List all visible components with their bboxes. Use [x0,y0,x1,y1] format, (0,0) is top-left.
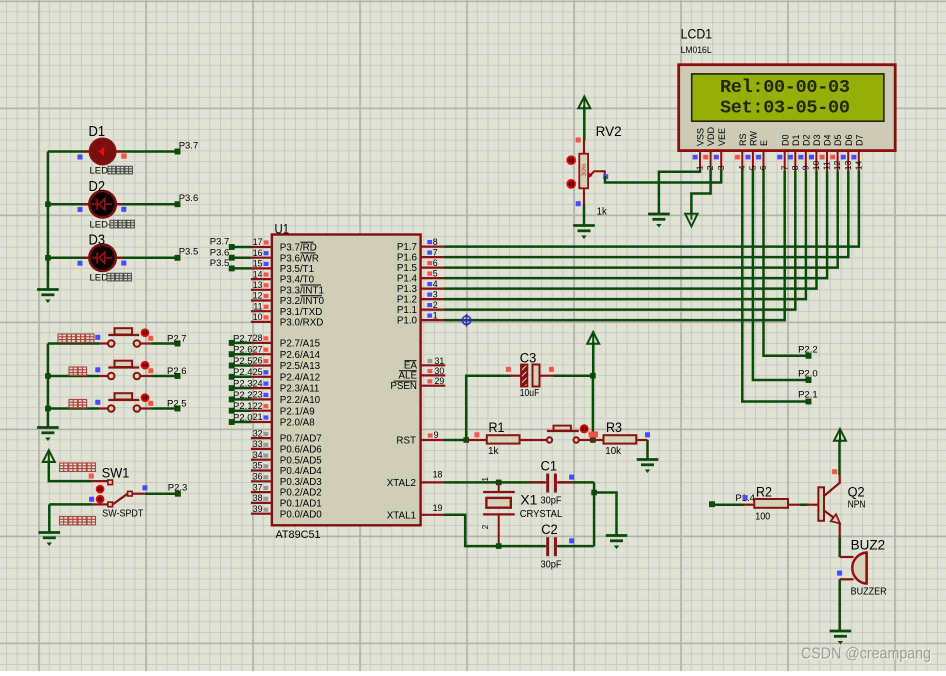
svg-text:38: 38 [253,493,263,503]
svg-text:19: 19 [433,503,443,513]
svg-text:2: 2 [433,300,438,310]
transistor Q2 NPN [818,487,824,521]
svg-text:12: 12 [832,160,842,170]
svg-text:4: 4 [433,279,438,289]
label 设置闹钟 [60,463,96,471]
svg-text:P3.7: P3.7 [210,237,230,248]
svg-text:11: 11 [253,301,262,311]
svg-text:XTAL2: XTAL2 [387,478,416,489]
svg-text:P2.1/A9: P2.1/A9 [280,406,315,417]
svg-text:30: 30 [435,366,445,376]
svg-text:NPN: NPN [848,500,866,511]
svg-text:10uF: 10uF [520,388,540,399]
svg-text:P1.4: P1.4 [397,274,418,285]
svg-text:P2.6: P2.6 [167,366,187,377]
svg-text:35: 35 [253,461,263,471]
terminal P3.6 (LED) [175,201,181,207]
junction - bus/D3 [45,255,51,261]
svg-text:LED: LED [90,273,109,284]
ground - RV2 [573,226,595,239]
svg-text:P3.6: P3.6 [179,193,199,204]
power arrow - RV2 [578,97,590,109]
label 调整时间 [60,517,96,525]
wire - buzzer to ground [838,579,841,631]
junction - bus/btn3 [45,406,51,412]
MCU left pins P0 group [251,437,272,439]
svg-text:10k: 10k [605,446,622,457]
svg-text:30pF: 30pF [541,559,562,570]
svg-text:1: 1 [695,165,705,170]
svg-text:SW-SPDT: SW-SPDT [102,508,143,520]
terminal P3.7 (chip) [229,244,235,250]
svg-text:D1: D1 [791,134,801,146]
svg-text:P2.2: P2.2 [798,344,818,355]
svg-text:1k: 1k [597,206,608,217]
svg-text:P3.3/INT1: P3.3/INT1 [280,285,324,296]
svg-text:RS: RS [738,133,748,146]
MCU U1 AT89C51 body [272,235,421,526]
svg-text:D7: D7 [854,134,864,146]
svg-text:P0.0/AD0: P0.0/AD0 [280,509,322,520]
capacitor C1 30pF [529,474,573,493]
svg-text:RW: RW [749,131,759,146]
button - plus one (P2.6) [48,375,99,378]
ground - button bus [37,428,59,441]
svg-text:P2.5: P2.5 [167,399,187,410]
svg-text:P1.7: P1.7 [397,242,417,253]
svg-text:P3.6/WR: P3.6/WR [280,253,319,264]
svg-text:D2: D2 [801,134,811,146]
wire - P1.4 to R2 [713,503,743,506]
wire - SW1 ground leg [48,504,51,532]
svg-text:P3.4/T0: P3.4/T0 [280,275,315,286]
svg-text:24: 24 [253,378,263,388]
terminal P2.2 [806,353,812,359]
svg-text:P3.7/RD: P3.7/RD [280,243,317,254]
terminal P2.3 [175,491,181,497]
wire - LED bus vertical [47,152,50,290]
svg-text:P1.6: P1.6 [397,253,418,264]
svg-text:9: 9 [800,165,810,170]
svg-text:P2.0/A8: P2.0/A8 [280,418,315,429]
terminal P3.5 (chip) [229,265,235,271]
svg-text:P3.0/RXD: P3.0/RXD [280,318,324,329]
ground - LED bus [37,290,59,303]
wire - RV2 wiper to LCD VEE [605,176,722,183]
MCU right pin XTAL1 19 [421,514,444,516]
svg-text:14: 14 [253,269,263,279]
wire - C1/C2 right vertical [593,482,596,546]
svg-text:P2.6: P2.6 [233,345,253,356]
svg-text:P3.5: P3.5 [210,258,230,269]
svg-text:P3.1/TXD: P3.1/TXD [280,307,322,318]
junction - crystal bottom [496,543,502,549]
crystal X1 [498,482,500,492]
svg-text:Q2: Q2 [848,484,865,499]
ground - buzzer [830,631,852,644]
svg-text:15: 15 [253,259,263,269]
svg-text:11: 11 [822,161,832,170]
junction - RST node [463,437,469,443]
svg-text:PSEN: PSEN [390,381,417,392]
svg-text:18: 18 [433,470,443,480]
svg-text:P0.6/AD6: P0.6/AD6 [280,445,322,456]
wire - R3 to ground [646,440,649,460]
svg-text:P3.5/T1: P3.5/T1 [280,264,314,275]
LCD screen [692,74,884,121]
terminal P2.1 [806,399,812,405]
svg-text:CRYSTAL: CRYSTAL [520,508,563,520]
power arrow - Q2 collector [834,429,846,441]
svg-text:E: E [759,140,769,146]
svg-text:P1.0: P1.0 [397,316,418,327]
svg-text:9: 9 [434,430,439,440]
svg-text:P0.3/AD3: P0.3/AD3 [280,477,322,488]
svg-text:VDD: VDD [706,126,716,146]
label 改变模式 [58,334,94,342]
svg-text:LCD1: LCD1 [681,27,713,42]
wires - P1 bus to LCD data pins [444,171,859,247]
buzzer BUZ2 [840,556,854,558]
svg-text:C1: C1 [541,458,558,473]
svg-text:D3: D3 [812,134,822,146]
junction - cap ground branch [591,490,597,496]
svg-text:P1.1: P1.1 [397,305,417,316]
svg-text:2: 2 [481,524,490,529]
ground - LCD VSS [648,214,670,227]
svg-text:P0.1/AD1: P0.1/AD1 [280,499,322,510]
MCU left pins P3 group [251,246,272,248]
wire - RW to P2.0 [753,170,809,380]
svg-text:P2.0: P2.0 [233,412,253,423]
svg-text:13: 13 [843,160,853,170]
svg-text:28: 28 [253,333,263,343]
svg-text:D0: D0 [780,134,790,146]
svg-text:P2.3: P2.3 [233,379,253,390]
svg-text:D6: D6 [844,134,854,146]
svg-text:7: 7 [779,165,789,170]
wire - D1 row [48,150,178,153]
wire - button bus [47,344,50,428]
LED D1 (lit) [89,138,115,164]
svg-text:D5: D5 [833,134,843,146]
resistor R1 1k [466,439,487,441]
wire - E to P2.2 [764,170,809,356]
svg-text:VSS: VSS [696,128,706,146]
ground - SW1 [39,533,61,546]
wire - VEE stub [720,170,723,183]
power arrow - RST node [587,332,599,344]
MCU left pins P2 group with terminals [251,342,272,344]
terminal P3.6 (chip) [229,255,235,261]
svg-text:1: 1 [481,477,490,482]
wire - to crystal ground [594,493,616,536]
svg-text:30pF: 30pF [541,496,562,507]
junction - bus/D2 [45,201,51,207]
svg-text:6: 6 [433,258,438,268]
svg-text:100: 100 [755,512,770,523]
MCU right pins EA ALE PSEN [421,364,446,366]
terminal P2.0 [806,377,812,383]
svg-text:VEE: VEE [717,128,727,146]
svg-text:AT89C51: AT89C51 [276,529,321,541]
svg-text:LED-: LED- [90,220,112,231]
svg-text:P2.5/A13: P2.5/A13 [280,361,321,372]
svg-text:33: 33 [253,439,263,449]
capacitor C3 10uF [509,375,521,377]
power arrow down - LCD VDD [685,214,697,227]
capacitor C2 30pF [529,537,573,556]
svg-text:R3: R3 [606,420,622,435]
resistor R3 10k [593,439,604,441]
LCD LM016L body [679,65,896,151]
svg-text:10: 10 [253,312,263,322]
svg-text:X1: X1 [520,493,537,508]
svg-text:5: 5 [748,165,758,170]
svg-text:D2: D2 [89,178,106,195]
wire - XTAL2 row [444,481,546,484]
wire - VSS to ground [659,170,700,214]
svg-text:Rel:00-00-03: Rel:00-00-03 [720,77,850,98]
terminal P3.7 (LED) [175,149,181,155]
svg-text:39: 39 [253,504,263,514]
wire - XTAL1 row [444,515,546,546]
svg-text:LM016L: LM016L [681,45,712,56]
svg-text:P2.3/A11: P2.3/A11 [280,384,320,395]
svg-text:P3.2/INT0: P3.2/INT0 [280,296,325,307]
push button - reset [547,430,579,432]
wire - VDD to power [691,170,710,215]
ground - crystal caps [606,536,628,549]
svg-text:P2.2/A10: P2.2/A10 [280,395,321,406]
resistor R2 100 [754,499,788,508]
svg-text:SW1: SW1 [102,465,130,480]
potentiometer RV2 1k [583,140,585,154]
svg-text:P2.7: P2.7 [233,333,253,344]
svg-text:D1: D1 [89,123,106,140]
svg-text:C2: C2 [541,522,558,537]
svg-text:3: 3 [716,165,726,170]
terminal P1.4 (base drive) [709,501,715,507]
junction - R3 node [590,437,596,443]
svg-text:22: 22 [253,401,263,411]
svg-text:P0.4/AD4: P0.4/AD4 [280,466,322,477]
svg-text:34: 34 [253,450,263,460]
terminal P3.5 (LED) [175,255,181,261]
LCD pins 1-14 [699,151,701,171]
wire - RS to P2.1 [742,170,808,402]
svg-text:P2.3: P2.3 [168,482,188,493]
label 减一 [69,400,87,408]
svg-text:37: 37 [253,482,263,492]
svg-text:P2.6/A14: P2.6/A14 [280,350,321,361]
switch SW1 SW-SPDT [92,480,107,482]
MCU right pin RST 9 [421,439,444,441]
svg-text:Set:03-05-00: Set:03-05-00 [720,98,850,119]
wire - C3 left branch [466,376,511,440]
wire - D3 row [48,257,178,260]
svg-text:16: 16 [253,248,263,258]
svg-text:14: 14 [853,160,863,170]
svg-text:7: 7 [433,247,438,257]
svg-text:27: 27 [253,344,263,354]
svg-text:R2: R2 [756,484,772,499]
power arrow - SW1 [43,450,55,462]
svg-text:P2.4: P2.4 [233,367,253,378]
svg-text:13: 13 [253,280,263,290]
svg-text:31: 31 [435,356,445,366]
ground - R3 [637,460,659,473]
svg-text:36: 36 [253,472,263,482]
svg-text:BUZZER: BUZZER [851,587,887,598]
svg-text:P0.7/AD7: P0.7/AD7 [280,434,322,445]
svg-text:30%: 30% [581,163,588,176]
MCU right pins P1 group [421,246,444,248]
origin marker crosshair [460,314,473,327]
svg-text:P2.7: P2.7 [167,334,187,345]
button - minus one (P2.5) [48,407,99,410]
wire - down to R3/button node [592,376,595,440]
junction - C3 right / power [590,373,596,379]
svg-text:26: 26 [253,356,263,366]
svg-text:P0.5/AD5: P0.5/AD5 [280,455,322,466]
svg-text:P3.6: P3.6 [210,247,230,258]
svg-text:BUZ2: BUZ2 [851,538,886,553]
wire - emitter to buzzer [838,536,841,557]
svg-text:1: 1 [433,310,438,320]
svg-text:C3: C3 [520,350,537,365]
label 加一 [69,367,87,375]
svg-text:P2.7/A15: P2.7/A15 [280,339,321,350]
svg-text:12: 12 [253,291,263,301]
svg-text:10: 10 [811,160,821,170]
svg-text:P2.1: P2.1 [233,401,253,412]
svg-text:29: 29 [435,376,445,386]
svg-text:CSDN @creampang: CSDN @creampang [801,646,931,663]
svg-text:8: 8 [790,165,800,170]
wire - D2 row [48,203,178,206]
svg-text:5: 5 [433,268,438,278]
wire - collector to power [838,442,841,476]
svg-text:XTAL1: XTAL1 [387,510,416,521]
svg-text:3: 3 [433,289,438,299]
wire - RV2 to ground [583,205,586,226]
MCU right pin XTAL2 18 [421,481,444,483]
button - change mode (P2.7) [48,342,99,345]
svg-text:23: 23 [253,390,263,400]
junction - bus/btn2 [45,373,51,379]
svg-text:P1.5: P1.5 [397,263,418,274]
svg-text:17: 17 [253,237,263,247]
LED D2 [89,191,115,217]
svg-text:R1: R1 [489,420,505,435]
svg-text:4: 4 [737,165,747,170]
svg-text:P0.2/AD2: P0.2/AD2 [280,488,322,499]
svg-text:25: 25 [253,367,263,377]
svg-text:P2.0: P2.0 [798,369,818,380]
svg-text:P3.5: P3.5 [179,247,199,258]
svg-text:RV2: RV2 [596,124,622,139]
svg-text:6: 6 [758,165,768,170]
LED D3 [89,245,115,271]
svg-text:P1.2: P1.2 [397,295,417,306]
svg-text:8: 8 [433,237,438,247]
svg-text:2: 2 [705,165,715,170]
svg-text:1k: 1k [488,446,499,457]
svg-text:D3: D3 [89,232,106,249]
junction - crystal top [496,480,502,486]
svg-text:D4: D4 [823,134,833,146]
svg-text:P2.2: P2.2 [233,390,253,401]
svg-text:P2.4/A12: P2.4/A12 [280,372,320,383]
svg-text:RST: RST [396,436,416,447]
svg-text:LED: LED [90,166,109,177]
svg-text:P2.1: P2.1 [798,390,818,401]
svg-text:P1.3: P1.3 [397,284,418,295]
svg-text:21: 21 [253,412,263,422]
svg-text:U1: U1 [275,222,290,237]
svg-text:P2.5: P2.5 [233,356,253,367]
wire - RST to R1 [444,439,469,442]
svg-text:P3.7: P3.7 [179,140,199,151]
svg-text:32: 32 [253,428,263,438]
